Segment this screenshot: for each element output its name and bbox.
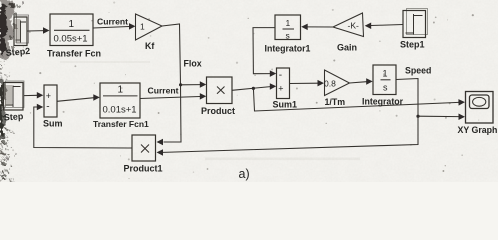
svg-text:1: 1: [383, 69, 388, 79]
svg-text:1: 1: [140, 22, 145, 32]
svg-text:Transfer Fcn1: Transfer Fcn1: [93, 119, 149, 129]
svg-text:+: +: [278, 84, 283, 94]
svg-text:+: +: [46, 91, 51, 101]
wire Integrator1 to Sum1 (minus input): [253, 28, 276, 77]
step source Step1: [403, 9, 428, 38]
gain block 1/Tm: [325, 70, 350, 96]
svg-text:Integrator1: Integrator1: [265, 44, 311, 54]
wire Sum to Transfer Fcn1: [57, 94, 100, 101]
svg-text:Kf: Kf: [145, 41, 154, 51]
svg-text:1: 1: [118, 85, 124, 96]
svg-text:0.01s+1: 0.01s+1: [103, 105, 137, 116]
svg-text:Sum: Sum: [43, 119, 63, 129]
scope block XY Graph: [466, 92, 494, 124]
svg-text:Product: Product: [201, 106, 235, 116]
wire Step to Sum: [24, 92, 43, 99]
svg-text:Speed: Speed: [405, 66, 431, 76]
gain Kf: [136, 14, 163, 40]
scan smudge top-left corner: [0, 0, 24, 60]
svg-text:Step: Step: [3, 111, 24, 122]
svg-text:Transfer Fcn: Transfer Fcn: [47, 49, 101, 59]
svg-text:1/Tm: 1/Tm: [325, 97, 346, 107]
scan speckle band bottom-left: [0, 128, 16, 182]
wire Sum1 to 1/Tm: [290, 80, 325, 87]
wire Gain to Integrator1: [301, 24, 333, 31]
wire Integrator (Speed) down and back to Product1, branch to XY Graph: [157, 79, 466, 156]
svg-text:0.8: 0.8: [324, 79, 336, 89]
gain block Gain: [333, 13, 364, 37]
wire Kf to Product and down to Product1 (flux line): [157, 24, 207, 145]
product block Product: [207, 77, 233, 104]
transfer function block Transfer Fcn: [50, 14, 93, 46]
step source Step: [4, 81, 25, 110]
svg-text:-: -: [46, 102, 49, 113]
svg-text:0.05s+1: 0.05s+1: [54, 34, 88, 45]
product block Product1: [132, 135, 156, 161]
transfer function block Transfer Fcn1: [100, 83, 140, 118]
svg-text:1: 1: [286, 18, 291, 28]
svg-text:Current: Current: [148, 86, 179, 96]
svg-text:Integrator: Integrator: [362, 97, 404, 107]
wire Step1 to Gain: [365, 23, 403, 30]
integrator block Integrator1: [275, 15, 301, 40]
svg-text:Sum1: Sum1: [273, 100, 298, 110]
sum block Sum1: [277, 68, 290, 99]
wire Transfer Fcn to Kf: [93, 23, 136, 30]
svg-text:s: s: [286, 30, 290, 40]
wire Step2 to Transfer Fcn: [28, 27, 50, 34]
svg-text:Step1: Step1: [400, 40, 425, 50]
svg-text:s: s: [383, 83, 388, 93]
svg-text:1: 1: [69, 19, 75, 30]
svg-text:Current: Current: [97, 17, 128, 27]
svg-text:Product1: Product1: [124, 164, 163, 174]
svg-text:a): a): [239, 167, 250, 181]
svg-text:XY Graph: XY Graph: [458, 125, 498, 135]
sum block Sum: [44, 85, 57, 117]
wire 1/Tm to Integrator: [350, 78, 373, 85]
wire Product1 to Sum (minus input feedback): [34, 104, 132, 148]
svg-text:Flox: Flox: [184, 59, 202, 69]
wire Transfer Fcn1 to Product: [140, 93, 206, 100]
scan speckle left edge upper-mid: [0, 58, 10, 82]
svg-text:Step2: Step2: [5, 46, 30, 58]
scan smudge left edge middle: [0, 78, 7, 140]
svg-text:-K-: -K-: [348, 21, 360, 31]
scattered scan specks: [12, 2, 479, 180]
svg-text:-: -: [279, 70, 282, 81]
step source Step2: [14, 15, 29, 46]
faint scan streak above caption: [205, 158, 360, 161]
svg-text:Gain: Gain: [337, 43, 357, 53]
wire Product to Sum1 with branch to XY Graph: [232, 83, 465, 111]
paper background: [0, 0, 498, 182]
integrator block Integrator: [373, 65, 396, 95]
